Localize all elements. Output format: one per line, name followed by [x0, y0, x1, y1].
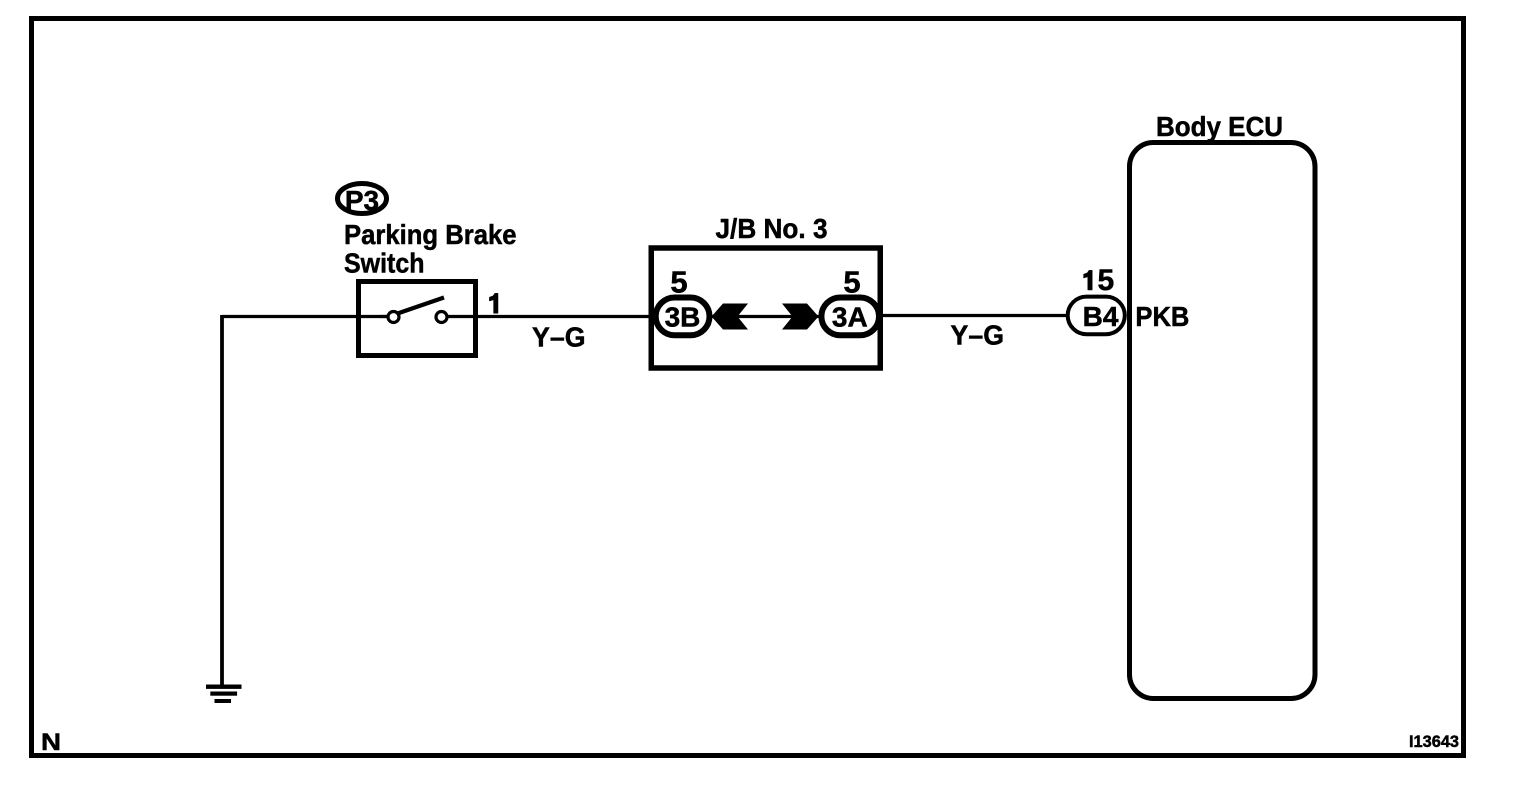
- svg-text:5: 5: [670, 265, 687, 300]
- svg-text:5: 5: [843, 265, 860, 300]
- svg-text:5: 5: [1097, 264, 1114, 297]
- svg-text:Y–G: Y–G: [532, 322, 586, 353]
- svg-text:3A: 3A: [832, 301, 868, 332]
- svg-text:N: N: [41, 729, 61, 756]
- svg-text:I13643: I13643: [1409, 732, 1459, 751]
- svg-text:PKB: PKB: [1135, 301, 1189, 332]
- svg-text:Body ECU: Body ECU: [1156, 111, 1283, 142]
- svg-text:Y–G: Y–G: [951, 320, 1005, 351]
- svg-text:Parking Brake: Parking Brake: [344, 219, 517, 250]
- svg-text:J/B No. 3: J/B No. 3: [716, 213, 828, 244]
- svg-text:Switch: Switch: [344, 248, 425, 279]
- svg-text:3B: 3B: [665, 301, 701, 332]
- svg-text:P3: P3: [345, 185, 379, 216]
- svg-text:B4: B4: [1083, 301, 1119, 332]
